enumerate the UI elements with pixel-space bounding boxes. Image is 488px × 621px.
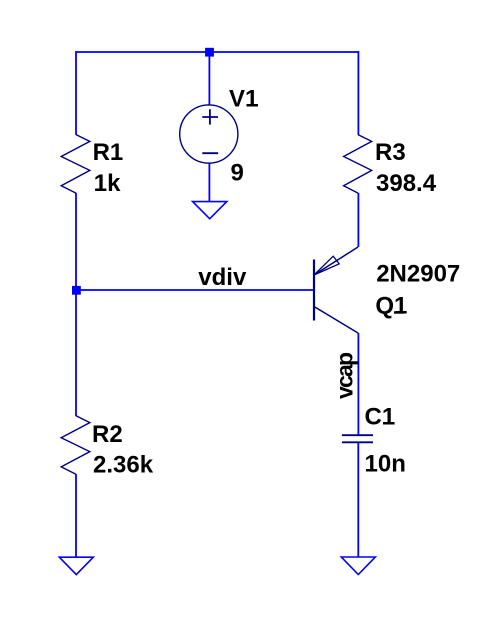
transistor Q1 base bar: [313, 260, 315, 321]
wire V1 bottom lead: [208, 163, 210, 202]
ground bottom right: [341, 557, 375, 575]
transistor Q1 emitter arrow: [314, 256, 339, 275]
serif foot of digit 1 in 10n: [366, 469, 376, 471]
capacitor C1: [342, 435, 373, 442]
wire Q1 collector to C1: [357, 333, 359, 435]
resistor R2: [61, 416, 90, 475]
wire R2 to ground: [75, 474, 77, 557]
junction node vdiv: [72, 286, 81, 295]
ground under V1: [193, 202, 227, 219]
svg-text:vcap: vcap: [332, 352, 358, 399]
wire top rail: [76, 51, 358, 53]
serif foot of digit 1 in V1: [248, 104, 258, 106]
svg-text:R3: R3: [375, 139, 406, 166]
svg-text:10n: 10n: [365, 451, 406, 478]
serif foot of digit 1 in R1: [112, 157, 122, 159]
wire left drop to R1: [75, 51, 77, 135]
wire vdiv: [76, 289, 314, 291]
ground bottom left: [59, 557, 93, 574]
serif foot of digit 1 in Q1: [394, 311, 404, 313]
svg-text:2.36k: 2.36k: [93, 452, 154, 479]
svg-text:Q1: Q1: [375, 293, 407, 320]
wire C1 to ground: [357, 442, 359, 557]
transistor Q1 collector: [314, 307, 358, 334]
wire right drop to R3: [357, 51, 359, 135]
svg-text:vdiv: vdiv: [198, 264, 247, 291]
wire R3 to Q1 emitter: [357, 193, 359, 247]
serif foot of digit 1 in C1: [383, 422, 393, 424]
svg-text:R2: R2: [92, 421, 123, 448]
junction node top rail / V1: [205, 48, 214, 57]
svg-text:R1: R1: [93, 139, 124, 166]
svg-text:1k: 1k: [94, 170, 121, 197]
voltage source V1: [180, 105, 238, 163]
wire V1 top lead: [208, 52, 210, 105]
transistor Q1 emitter: [314, 247, 358, 275]
svg-text:C1: C1: [365, 404, 396, 431]
svg-text:9: 9: [231, 160, 244, 187]
resistor R3: [344, 135, 372, 194]
wire R1 to vdiv node to R2: [75, 193, 77, 416]
svg-text:V1: V1: [229, 86, 258, 113]
serif foot of digit 1 in 1k: [95, 189, 105, 191]
svg-text:2N2907: 2N2907: [376, 260, 460, 287]
svg-text:398.4: 398.4: [376, 170, 437, 197]
resistor R1: [61, 135, 90, 194]
